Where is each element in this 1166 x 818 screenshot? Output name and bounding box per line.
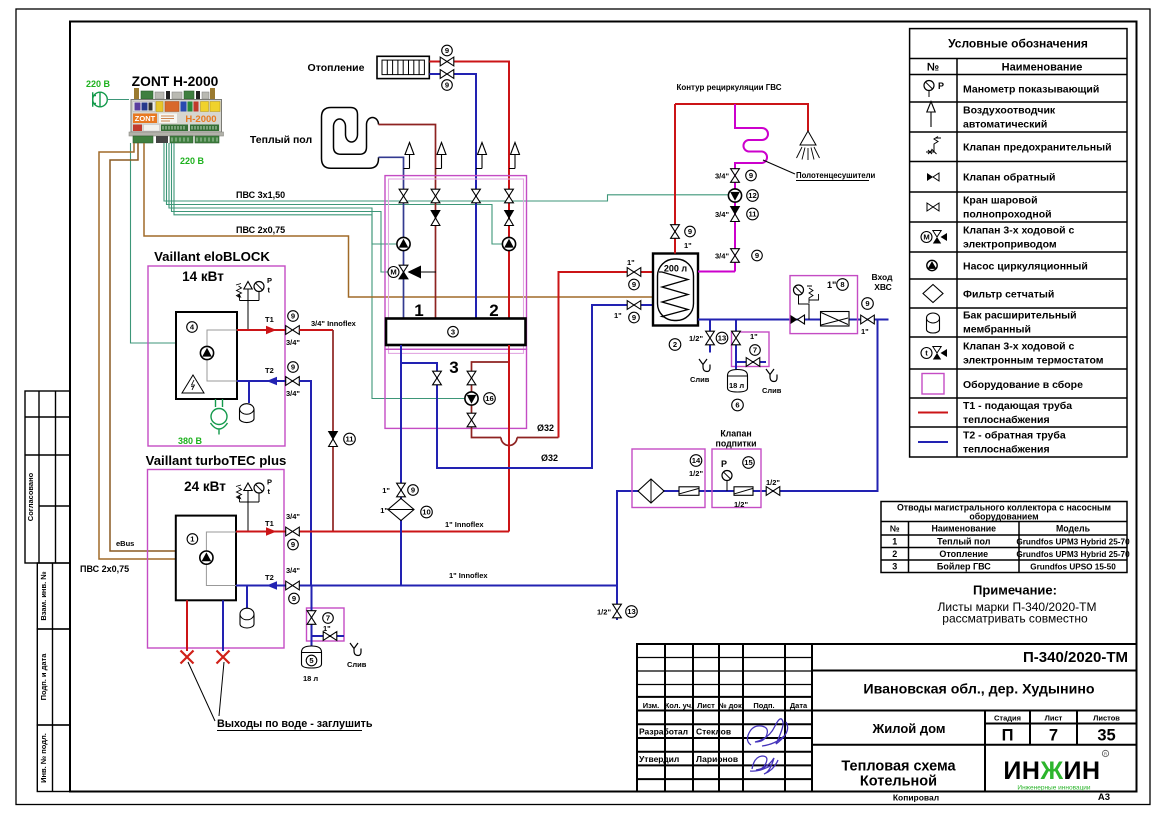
pipe to tank 5 — [311, 586, 313, 647]
legend air vent — [930, 112, 932, 127]
valve — [467, 371, 476, 385]
svg-text:3: 3 — [451, 327, 455, 336]
valve T1 3/4 — [286, 527, 300, 536]
check valve pipe2 — [431, 211, 440, 226]
svg-text:T2: T2 — [265, 366, 274, 375]
svg-text:9: 9 — [632, 280, 636, 289]
wire teal to pump 12 — [164, 143, 729, 201]
svg-text:подпитки: подпитки — [716, 439, 757, 449]
svg-text:теплоснабжения: теплоснабжения — [963, 444, 1050, 456]
safety group P t — [240, 289, 260, 330]
node 4 — [187, 322, 198, 333]
wire brown to tank sensor — [144, 143, 653, 297]
svg-text:Изм.: Изм. — [643, 701, 660, 710]
svg-text:электроприводом: электроприводом — [963, 239, 1057, 251]
svg-text:Vaillant eloBLOCK: Vaillant eloBLOCK — [154, 249, 270, 264]
svg-text:автоматический: автоматический — [963, 119, 1047, 131]
node 2 — [669, 339, 681, 351]
check valve pipe4 — [505, 211, 514, 226]
svg-text:Теплый пол: Теплый пол — [250, 134, 312, 146]
svg-text:15: 15 — [744, 458, 753, 467]
radiator — [377, 56, 429, 78]
svg-text:1/2": 1/2" — [766, 478, 780, 487]
svg-text:T2: T2 — [265, 573, 274, 582]
svg-text:3/4": 3/4" — [286, 338, 300, 347]
pump list table — [881, 502, 1127, 573]
svg-text:7: 7 — [326, 614, 330, 623]
svg-text:11: 11 — [345, 435, 354, 444]
svg-text:М: М — [390, 268, 396, 277]
floor supply pipe — [379, 125, 436, 319]
svg-text:220 В: 220 В — [86, 79, 111, 89]
svg-text:Слив: Слив — [690, 375, 710, 384]
svg-text:Т1 - подающая труба: Т1 - подающая труба — [963, 400, 1072, 412]
svg-text:1: 1 — [414, 301, 423, 320]
pipe T2 return main — [236, 585, 617, 587]
svg-text:3/4": 3/4" — [286, 566, 300, 575]
svg-text:18 л: 18 л — [303, 674, 318, 683]
floor return pipe — [379, 157, 404, 318]
svg-text:24 кВт: 24 кВт — [184, 479, 226, 494]
wire teal to eloBLOCK — [131, 143, 177, 343]
expansion group 5: box — [307, 608, 345, 641]
check valve 11 — [329, 432, 338, 447]
svg-text:9: 9 — [632, 313, 636, 322]
svg-text:Клапан 3-х ходовой с: Клапан 3-х ходовой с — [963, 341, 1074, 353]
valve T1 3/4 — [286, 326, 300, 335]
svg-text:P: P — [267, 478, 272, 487]
svg-text:Ларионов: Ларионов — [696, 754, 738, 764]
svg-text:3/4": 3/4" — [286, 389, 300, 398]
svg-text:Разработал: Разработал — [639, 727, 688, 737]
filter 14 — [638, 479, 664, 503]
svg-text:Дата: Дата — [790, 701, 808, 710]
boiler loading circuit — [472, 362, 559, 446]
svg-text:1": 1" — [627, 258, 635, 267]
svg-text:P: P — [721, 459, 727, 469]
svg-text:Слив: Слив — [347, 660, 367, 669]
water outlets plugged — [186, 600, 188, 651]
svg-text:1": 1" — [861, 327, 869, 336]
filter unit — [821, 312, 850, 327]
svg-text:Grundfos UPM3 Hybrid 25-70: Grundfos UPM3 Hybrid 25-70 — [1016, 550, 1130, 559]
svg-text:1": 1" — [684, 241, 692, 250]
tank 18l N5 — [302, 646, 322, 668]
legend 3-way thermostat valve — [921, 348, 932, 359]
svg-text:Ивановская обл., дер. Худынино: Ивановская обл., дер. Худынино — [863, 682, 1094, 698]
svg-text:3/4": 3/4" — [286, 512, 300, 521]
pump 1 floor — [397, 237, 410, 250]
cold water line — [698, 319, 889, 321]
svg-text:Условные обозначения: Условные обозначения — [948, 37, 1088, 51]
svg-text:3/4": 3/4" — [715, 252, 729, 261]
wire teal to pump 2 — [167, 143, 503, 244]
svg-text:2: 2 — [489, 301, 498, 320]
air vent pipe4 — [509, 168, 515, 170]
drain branch 13 — [709, 320, 711, 353]
svg-text:№ док.: № док. — [718, 701, 744, 710]
pipe T2 down — [299, 381, 311, 586]
svg-text:Взам. инв. №: Взам. инв. № — [39, 571, 48, 620]
svg-text:Воздухоотводчик: Воздухоотводчик — [963, 105, 1056, 117]
svg-text:P: P — [267, 276, 272, 285]
left stamp: vzam block — [37, 563, 70, 629]
wire brown eBus — [110, 143, 176, 551]
svg-text:3/4" Innoflex: 3/4" Innoflex — [311, 319, 357, 328]
feed down to make-up — [617, 320, 878, 621]
reducer 1 — [679, 487, 699, 496]
svg-text:9: 9 — [865, 299, 869, 308]
legend expansion tank — [927, 313, 940, 333]
legend T2 line — [918, 441, 948, 443]
tank 18l N6 — [728, 370, 748, 393]
equipment box eloBLOCK — [148, 266, 285, 446]
svg-text:Стеклов: Стеклов — [696, 727, 731, 737]
svg-text:ПВС 2х0,75: ПВС 2х0,75 — [236, 225, 285, 235]
svg-text:2: 2 — [673, 340, 677, 349]
svg-text:35: 35 — [1097, 727, 1115, 745]
equipment box collector lower — [385, 349, 527, 428]
wire teal to M-valve — [172, 143, 389, 272]
svg-text:11: 11 — [748, 210, 757, 219]
svg-text:Тепловая схема: Тепловая схема — [841, 759, 956, 775]
svg-text:9: 9 — [749, 171, 753, 180]
svg-text:ХВС: ХВС — [874, 282, 892, 292]
svg-text:Бойлер ГВС: Бойлер ГВС — [937, 562, 991, 572]
svg-text:9: 9 — [445, 81, 449, 90]
pipe T1 riser down — [299, 329, 333, 331]
shower head — [800, 131, 816, 145]
title block header labels — [643, 701, 808, 710]
svg-text:eBus: eBus — [116, 539, 134, 548]
valve T2 3/4 — [286, 377, 300, 386]
svg-text:№: № — [927, 62, 939, 74]
pointer line — [763, 160, 795, 174]
svg-text:T1: T1 — [265, 315, 274, 324]
svg-text:3/4": 3/4" — [715, 172, 729, 181]
expansion tank — [248, 381, 250, 403]
svg-text:3: 3 — [892, 562, 897, 572]
svg-text:1": 1" — [382, 486, 390, 495]
expansion tank — [246, 586, 248, 610]
svg-text:Подп. и дата: Подп. и дата — [39, 653, 48, 701]
svg-text:3: 3 — [449, 358, 458, 377]
svg-text:7: 7 — [1049, 727, 1058, 745]
wire brown PVS to boiler — [99, 143, 176, 559]
air vent pipe2 — [436, 168, 442, 170]
svg-text:Инженерные инновации: Инженерные инновации — [1017, 785, 1091, 792]
wire teal to pump 16 — [174, 143, 465, 399]
valve 9 1" — [397, 483, 406, 497]
valve 9 lower — [731, 249, 740, 263]
svg-text:Согласовано: Согласовано — [26, 472, 35, 521]
valve 9 tank supply — [627, 268, 641, 277]
svg-text:ZONT: ZONT — [135, 114, 156, 123]
collector unit 3 — [386, 319, 526, 346]
svg-text:Grundfos UPSO 15-50: Grundfos UPSO 15-50 — [1030, 563, 1116, 572]
svg-text:12: 12 — [748, 191, 756, 200]
svg-text:№: № — [890, 524, 900, 534]
svg-text:Наименование: Наименование — [1002, 62, 1083, 74]
svg-text:Кран шаровой: Кран шаровой — [963, 195, 1038, 207]
coil in tank — [659, 272, 688, 317]
wire teal to pump 1 — [169, 143, 397, 244]
svg-text:Бак расширительный: Бак расширительный — [963, 310, 1077, 322]
HVS filter group box 8 — [790, 276, 858, 334]
svg-text:Жилой дом: Жилой дом — [871, 721, 945, 736]
svg-text:Манометр показывающий: Манометр показывающий — [963, 84, 1099, 96]
svg-text:оборудованием: оборудованием — [969, 512, 1038, 522]
legend manometer — [924, 81, 934, 91]
expansion group 6 box — [732, 332, 770, 367]
svg-text:Лист: Лист — [697, 701, 715, 710]
valve 9 entry — [861, 315, 875, 324]
svg-text:Клапан предохранительный: Клапан предохранительный — [963, 142, 1112, 154]
valve on branch — [433, 371, 442, 385]
drain branch — [312, 635, 345, 637]
svg-text:H-2000: H-2000 — [185, 114, 216, 125]
svg-text:Копировал: Копировал — [893, 793, 939, 803]
svg-text:14 кВт: 14 кВт — [182, 269, 224, 284]
svg-text:1": 1" — [827, 280, 836, 290]
valves on pipes — [399, 189, 408, 203]
svg-text:16: 16 — [485, 394, 493, 403]
valve — [467, 413, 476, 427]
title block — [637, 644, 1137, 792]
svg-text:1: 1 — [892, 537, 897, 547]
legend assembled equipment — [922, 374, 944, 395]
svg-text:9: 9 — [755, 251, 759, 260]
svg-text:9: 9 — [291, 312, 295, 321]
make-up valve box 15 — [712, 449, 761, 508]
boiler unit U4 — [176, 312, 237, 399]
legend pump — [927, 260, 937, 270]
legend filter — [923, 285, 943, 303]
pipe T2 in — [237, 380, 286, 382]
check valve — [791, 315, 798, 324]
pump 12 — [728, 189, 741, 202]
svg-text:1" Innoflex: 1" Innoflex — [445, 520, 484, 529]
svg-text:Клапан: Клапан — [720, 429, 751, 439]
tank 200l unit 2 — [653, 254, 698, 326]
svg-text:Контур рециркуляции ГВС: Контур рециркуляции ГВС — [676, 83, 781, 92]
socket symbol — [92, 92, 107, 107]
svg-text:Клапан обратный: Клапан обратный — [963, 172, 1055, 184]
svg-text:А3: А3 — [1098, 792, 1110, 803]
svg-text:рассматривать совместно: рассматривать совместно — [942, 612, 1088, 626]
svg-text:Насос циркуляционный: Насос циркуляционный — [963, 261, 1088, 273]
gauge P — [726, 481, 728, 492]
legend check valve — [927, 173, 939, 181]
pump in turboTEC — [200, 551, 213, 564]
gauge + safety — [799, 295, 810, 320]
svg-text:1": 1" — [380, 506, 388, 515]
pump 16 — [465, 392, 478, 405]
node 1 — [187, 534, 198, 545]
svg-text:П: П — [1002, 727, 1014, 745]
air vent pipe3 — [476, 168, 482, 170]
radiator valve return — [440, 70, 454, 79]
svg-text:1/2": 1/2" — [689, 469, 703, 478]
svg-text:18 л: 18 л — [729, 381, 744, 390]
svg-text:Ø32: Ø32 — [541, 453, 558, 463]
svg-text:ZONT H-2000: ZONT H-2000 — [132, 74, 219, 89]
svg-text:Полотенцесушители: Полотенцесушители — [796, 171, 876, 180]
internal pipe — [206, 532, 236, 586]
make-up drain valve 13 — [613, 604, 622, 618]
svg-text:200 л: 200 л — [664, 264, 688, 274]
reducer 2 — [734, 487, 753, 496]
boiler unit U1 — [176, 516, 236, 601]
valve 9 tank return — [627, 301, 641, 310]
make-up valve — [766, 487, 780, 496]
legend 3-way motor valve — [921, 232, 932, 243]
pointer lines — [188, 662, 224, 721]
svg-text:Вход: Вход — [871, 272, 893, 282]
supply to tank coil — [559, 272, 658, 438]
svg-text:13: 13 — [627, 607, 635, 616]
svg-text:Примечание:: Примечание: — [973, 583, 1057, 598]
air vent pipe1 — [404, 168, 410, 170]
svg-text:Инв. № подл.: Инв. № подл. — [39, 733, 48, 783]
equipment box collector upper — [385, 176, 527, 350]
svg-text:электронным термостатом: электронным термостатом — [963, 355, 1104, 367]
svg-text:380 В: 380 В — [178, 436, 203, 446]
recirculation top line — [675, 104, 808, 131]
svg-text:М: М — [923, 233, 929, 242]
svg-text:Р: Р — [938, 81, 944, 91]
legend ball valve — [927, 203, 939, 211]
svg-text:1/2": 1/2" — [689, 334, 703, 343]
svg-text:2: 2 — [892, 549, 897, 559]
svg-text:10: 10 — [422, 508, 430, 517]
pipe T1 out / main supply — [236, 531, 509, 533]
svg-text:T1: T1 — [265, 519, 274, 528]
svg-text:1": 1" — [750, 332, 758, 341]
svg-text:Лист: Лист — [1045, 714, 1063, 723]
svg-text:13: 13 — [718, 334, 726, 343]
left stamp: soglasovano block — [25, 391, 70, 563]
svg-text:полнопроходной: полнопроходной — [963, 209, 1052, 221]
svg-text:Отопление: Отопление — [308, 62, 365, 74]
pump in eloBLOCK — [200, 346, 213, 359]
svg-text:Котельной: Котельной — [860, 774, 937, 790]
svg-text:9: 9 — [291, 363, 295, 372]
radiator supply pipe — [429, 62, 509, 319]
floor heating coil — [322, 108, 379, 169]
svg-text:7: 7 — [753, 346, 757, 355]
radiator return pipe — [429, 74, 476, 319]
valve 9 — [731, 169, 740, 183]
svg-text:П-340/2020-ТМ: П-340/2020-ТМ — [1023, 649, 1128, 666]
filter 10 — [388, 499, 414, 521]
svg-text:Подп.: Подп. — [753, 701, 774, 710]
left stamp: inv block — [37, 725, 70, 792]
pipe T1 out — [237, 329, 286, 331]
legend safety valve — [926, 137, 941, 155]
return riser from collector — [400, 345, 402, 586]
svg-text:Теплый пол: Теплый пол — [937, 537, 991, 547]
equipment box turboTEC — [148, 470, 285, 649]
pump 2 heating — [502, 237, 515, 250]
valve 9 — [671, 225, 680, 239]
svg-text:Клапан 3-х ходовой с: Клапан 3-х ходовой с — [963, 225, 1074, 237]
svg-text:Фильтр сетчатый: Фильтр сетчатый — [963, 289, 1054, 301]
valve T2 3/4 — [286, 581, 300, 590]
wire socket to ZONT — [107, 99, 129, 101]
3-way valve M — [410, 271, 436, 273]
svg-text:теплоснабжения: теплоснабжения — [963, 414, 1050, 426]
svg-text:Grundfos UPM3 Hybrid 25-70: Grundfos UPM3 Hybrid 25-70 — [1016, 538, 1130, 547]
svg-text:ИНЖИН: ИНЖИН — [1003, 757, 1100, 785]
hot water outlet riser — [674, 104, 676, 254]
svg-text:Vaillant turboTEC plus: Vaillant turboTEC plus — [146, 453, 287, 468]
plug 380 V — [211, 399, 228, 435]
valve — [307, 611, 316, 625]
svg-text:3/4": 3/4" — [715, 210, 729, 219]
svg-text:ПВС 2х0,75: ПВС 2х0,75 — [80, 564, 129, 574]
warning triangle — [182, 375, 204, 393]
svg-text:Стадия: Стадия — [994, 714, 1021, 723]
svg-text:9: 9 — [411, 486, 415, 495]
internal pipe — [207, 330, 237, 381]
recirculation return — [698, 169, 735, 272]
svg-text:1/2": 1/2" — [597, 608, 611, 617]
drain branch — [736, 361, 766, 363]
controller ZONT H-2000 body — [129, 88, 224, 143]
svg-text:Отопление: Отопление — [939, 549, 988, 559]
legend table — [910, 29, 1127, 457]
svg-text:220 В: 220 В — [180, 156, 205, 166]
svg-text:9: 9 — [292, 594, 296, 603]
svg-text:мембранный: мембранный — [963, 324, 1031, 336]
safety group P t — [240, 491, 260, 532]
left stamp: podp block — [37, 629, 70, 725]
svg-text:Кол. уч.: Кол. уч. — [665, 701, 694, 710]
svg-text:1" Innoflex: 1" Innoflex — [449, 571, 488, 580]
svg-text:9: 9 — [291, 540, 295, 549]
svg-text:Наименование: Наименование — [932, 524, 997, 534]
svg-text:Ø32: Ø32 — [537, 423, 554, 433]
svg-text:8: 8 — [840, 280, 844, 289]
svg-text:Листов: Листов — [1093, 714, 1120, 723]
radiator valve supply — [440, 57, 454, 66]
svg-text:Утвердил: Утвердил — [639, 754, 679, 764]
svg-text:1/2": 1/2" — [734, 500, 748, 509]
check valve 11 — [731, 207, 740, 222]
make-up filter box 14 — [632, 449, 705, 508]
svg-text:9: 9 — [445, 46, 449, 55]
svg-text:6: 6 — [735, 401, 739, 410]
svg-text:Выходы по воде - заглушить: Выходы по воде - заглушить — [217, 718, 373, 730]
towel dryer coil — [735, 104, 768, 169]
signatures — [747, 719, 787, 746]
svg-text:Т2 - обратная труба: Т2 - обратная труба — [963, 430, 1066, 442]
svg-text:ПВС 3х1,50: ПВС 3х1,50 — [236, 190, 285, 200]
svg-text:1": 1" — [614, 311, 622, 320]
svg-text:Оборудование в сборе: Оборудование в сборе — [963, 379, 1083, 391]
riser red — [508, 345, 510, 532]
svg-text:Слив: Слив — [762, 386, 782, 395]
svg-text:Модель: Модель — [1056, 524, 1091, 534]
svg-text:9: 9 — [688, 227, 692, 236]
legend T1 line — [918, 412, 948, 414]
return from tank coil — [401, 305, 656, 468]
svg-text:14: 14 — [692, 456, 701, 465]
